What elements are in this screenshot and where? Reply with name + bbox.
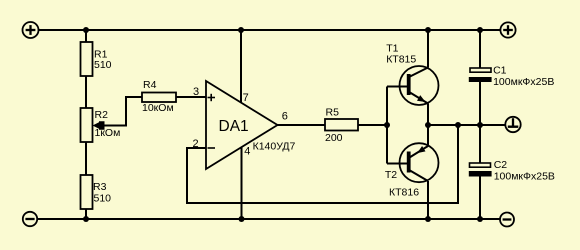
svg-text:100мкФх25В: 100мкФх25В: [494, 171, 555, 183]
svg-text:T1: T1: [386, 43, 398, 55]
svg-text:3: 3: [193, 86, 199, 98]
svg-text:7: 7: [243, 92, 249, 104]
svg-text:2: 2: [193, 138, 199, 150]
svg-text:T2: T2: [385, 169, 397, 181]
svg-text:К140УД7: К140УД7: [253, 141, 296, 153]
svg-text:200: 200: [325, 132, 343, 144]
svg-text:1кОм: 1кОм: [95, 127, 121, 139]
svg-text:510: 510: [94, 193, 112, 205]
svg-text:R4: R4: [143, 79, 157, 91]
svg-text:R2: R2: [95, 109, 109, 121]
svg-text:R5: R5: [326, 107, 340, 119]
svg-text:6: 6: [282, 111, 288, 123]
svg-text:100мкФх25В: 100мкФх25В: [493, 76, 554, 88]
svg-text:DA1: DA1: [219, 118, 249, 135]
svg-text:C1: C1: [493, 64, 507, 76]
svg-text:КТ816: КТ816: [389, 187, 419, 199]
svg-text:510: 510: [94, 59, 112, 71]
svg-text:R3: R3: [93, 181, 107, 193]
svg-text:C2: C2: [494, 159, 508, 171]
svg-text:4: 4: [244, 146, 250, 158]
svg-text:КТ815: КТ815: [386, 54, 416, 66]
svg-text:10кОм: 10кОм: [142, 102, 174, 114]
